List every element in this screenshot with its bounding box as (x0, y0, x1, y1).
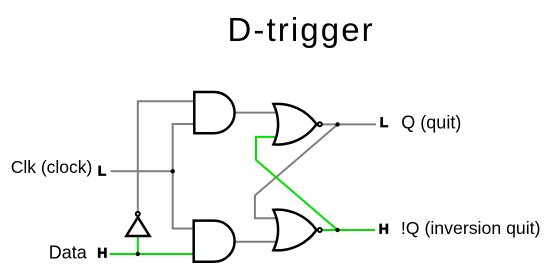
wire Clk branch to AND1 lower input and AND2 upper input (173, 124, 195, 229)
wire feedback Q diagonal (255, 125, 338, 219)
svg-text:Data: Data (49, 242, 88, 262)
not-gate inverter triangle (126, 217, 149, 236)
wire inverter input tap green (137, 236, 139, 254)
nor-gate NOR1 body (273, 104, 316, 145)
junction dot Clk branch (171, 169, 175, 173)
wire AND1 output to NOR1 upper input (234, 112, 279, 114)
svg-text:L: L (98, 163, 107, 179)
svg-text:Q (quit): Q (quit) (401, 112, 461, 132)
wire NOR1 output (322, 123, 376, 125)
wire Clk horizontal (111, 170, 173, 172)
svg-text:L: L (380, 114, 389, 130)
junction dot Data tap (136, 252, 140, 256)
svg-text:!Q (inversion quit): !Q (inversion quit) (401, 218, 541, 238)
wire Data green horizontal (110, 253, 195, 255)
and-gate AND2 (194, 221, 235, 262)
svg-text:H: H (97, 245, 107, 261)
nor-gate NOR1 bubble (318, 122, 322, 126)
svg-text:H: H (379, 220, 389, 236)
wire AND2 output to NOR2 lower input (234, 241, 279, 243)
wire NOR2 output green (322, 229, 375, 231)
junction dot !Q node (335, 228, 339, 232)
nor-gate NOR2 bubble (318, 228, 322, 232)
not-gate inverter bubble (136, 212, 140, 216)
svg-text:Clk (clock): Clk (clock) (11, 157, 93, 177)
wire inverter output to AND1 upper input (138, 101, 195, 211)
and-gate AND1 (194, 92, 234, 133)
nor-gate NOR2 body (273, 210, 316, 251)
svg-text:D-trigger: D-trigger (228, 11, 375, 48)
wire feedback !Q green diagonal (256, 137, 338, 230)
junction dot Q node (335, 122, 339, 126)
